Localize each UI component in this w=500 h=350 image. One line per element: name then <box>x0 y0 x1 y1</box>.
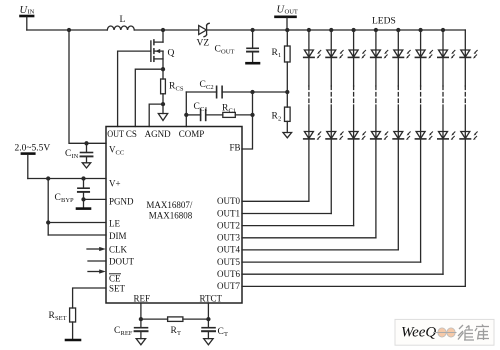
inductor L <box>107 26 134 30</box>
wire: FB vertical <box>242 92 253 149</box>
LED string 7 <box>438 29 455 275</box>
wire: REF to R_T <box>141 318 168 320</box>
ground (triangle) below C_T <box>204 339 213 345</box>
capacitor C_T <box>202 319 215 339</box>
wire: main top rail <box>27 29 108 31</box>
wire: OUT5 <box>242 261 421 263</box>
resistor R_C1 <box>223 112 236 117</box>
wire: DIM pin <box>48 234 106 236</box>
wire: OUT2 <box>242 225 354 227</box>
ground (triangle) below R_CS <box>158 104 167 120</box>
resistor R_CS <box>161 69 166 104</box>
wire: V+ feed <box>28 178 106 180</box>
LED string 3 <box>348 29 365 226</box>
wire: C_C2 to divider <box>222 91 287 93</box>
node: PGND tap <box>82 198 85 201</box>
node: divider junction <box>286 91 289 94</box>
resistor R1 <box>285 30 291 92</box>
wire: top rail L to VZ <box>134 29 198 31</box>
node: RTCT junction <box>207 318 210 321</box>
LED string 1 <box>304 29 321 202</box>
IC U1 MAX16807/MAX16808 <box>106 127 242 304</box>
wire: gate to OUT pin <box>118 51 151 126</box>
node: U_OUT junction <box>286 29 289 32</box>
node: REF junction <box>139 318 142 321</box>
watermark WeeQoo <box>395 319 494 345</box>
wire: LE pin <box>48 222 106 224</box>
terminal U_IN <box>21 16 34 30</box>
capacitor C_C2 <box>217 86 223 97</box>
node: FB top junction <box>251 91 254 94</box>
IC pin labels <box>107 129 240 304</box>
transistor Q (n-MOSFET) <box>151 30 163 69</box>
LED string 4 <box>371 29 388 238</box>
node: logic rail tap <box>47 177 50 180</box>
resistor R_SET <box>70 308 76 339</box>
wire: SET pin <box>73 288 106 308</box>
wire: lower comp branch <box>186 114 200 116</box>
capacitor C_C1 <box>201 109 206 120</box>
LED string 2 <box>326 29 343 214</box>
wire: AGND pin <box>149 104 163 126</box>
LED string 5 <box>393 29 410 250</box>
node: FB lower junction <box>251 113 254 116</box>
node: C_BYP tap <box>82 177 85 180</box>
LED string 8 <box>460 30 477 286</box>
ground (bar) below R_SET <box>66 339 80 342</box>
node: source junction <box>162 68 165 71</box>
terminal 2.0~5.5V <box>22 154 34 179</box>
node: Q drain junction <box>162 29 165 32</box>
wire: OUT6 <box>242 273 443 275</box>
arrow into CE <box>88 269 106 273</box>
diode VZ <box>199 23 210 36</box>
wire: C_C1 to R_C1 <box>206 114 223 116</box>
terminal U_OUT <box>276 17 296 30</box>
ground (bar) below C_BYP <box>77 207 90 210</box>
ground (triangle) below C_IN <box>82 163 90 168</box>
ground (bar) below C_OUT <box>247 62 260 65</box>
wire: VCC rail down <box>69 30 106 143</box>
wire: OUT7 <box>242 285 465 287</box>
node: C_OUT junction <box>251 29 254 32</box>
arrow into CLK <box>87 247 106 251</box>
wire: source to CS pin <box>135 69 163 126</box>
wire: REF pin <box>140 303 142 319</box>
capacitor C_REF <box>135 319 148 339</box>
node: LE tap <box>47 221 50 224</box>
LED string 6 <box>415 29 432 263</box>
wire: R_C1 to FB vertical <box>235 114 252 116</box>
wire: DOUT pin <box>88 260 106 262</box>
node: C_IN tap <box>85 142 88 145</box>
wire: RTCT pin <box>207 303 209 319</box>
capacitor C_BYP <box>78 179 89 208</box>
wire: OUT3 <box>242 237 376 239</box>
wire: PGND pin <box>84 198 107 200</box>
wire: R_T to RTCT <box>183 318 209 320</box>
ground (triangle) below C_REF <box>136 339 145 345</box>
ground (triangle) below R2 <box>283 133 292 138</box>
node: R_CS bottom junction <box>162 103 165 106</box>
resistor R2 <box>285 92 291 133</box>
wire: OUT1 <box>242 213 331 215</box>
wire: logic rail <box>47 179 49 236</box>
wire: OUT0 <box>242 200 309 202</box>
wire: COMP pin vertical <box>185 92 187 127</box>
capacitor C_OUT <box>247 30 258 62</box>
svg-text:WeeQ: WeeQ <box>401 325 436 341</box>
wire: OUT4 <box>242 249 398 251</box>
wire: compensation top branch <box>186 91 216 93</box>
capacitor C_IN <box>81 143 93 163</box>
wire: top rail VZ to right corner <box>207 29 466 31</box>
node: comp branch junction <box>185 113 188 116</box>
node: U_IN feed junction <box>68 29 71 32</box>
resistor R_T <box>168 317 183 322</box>
